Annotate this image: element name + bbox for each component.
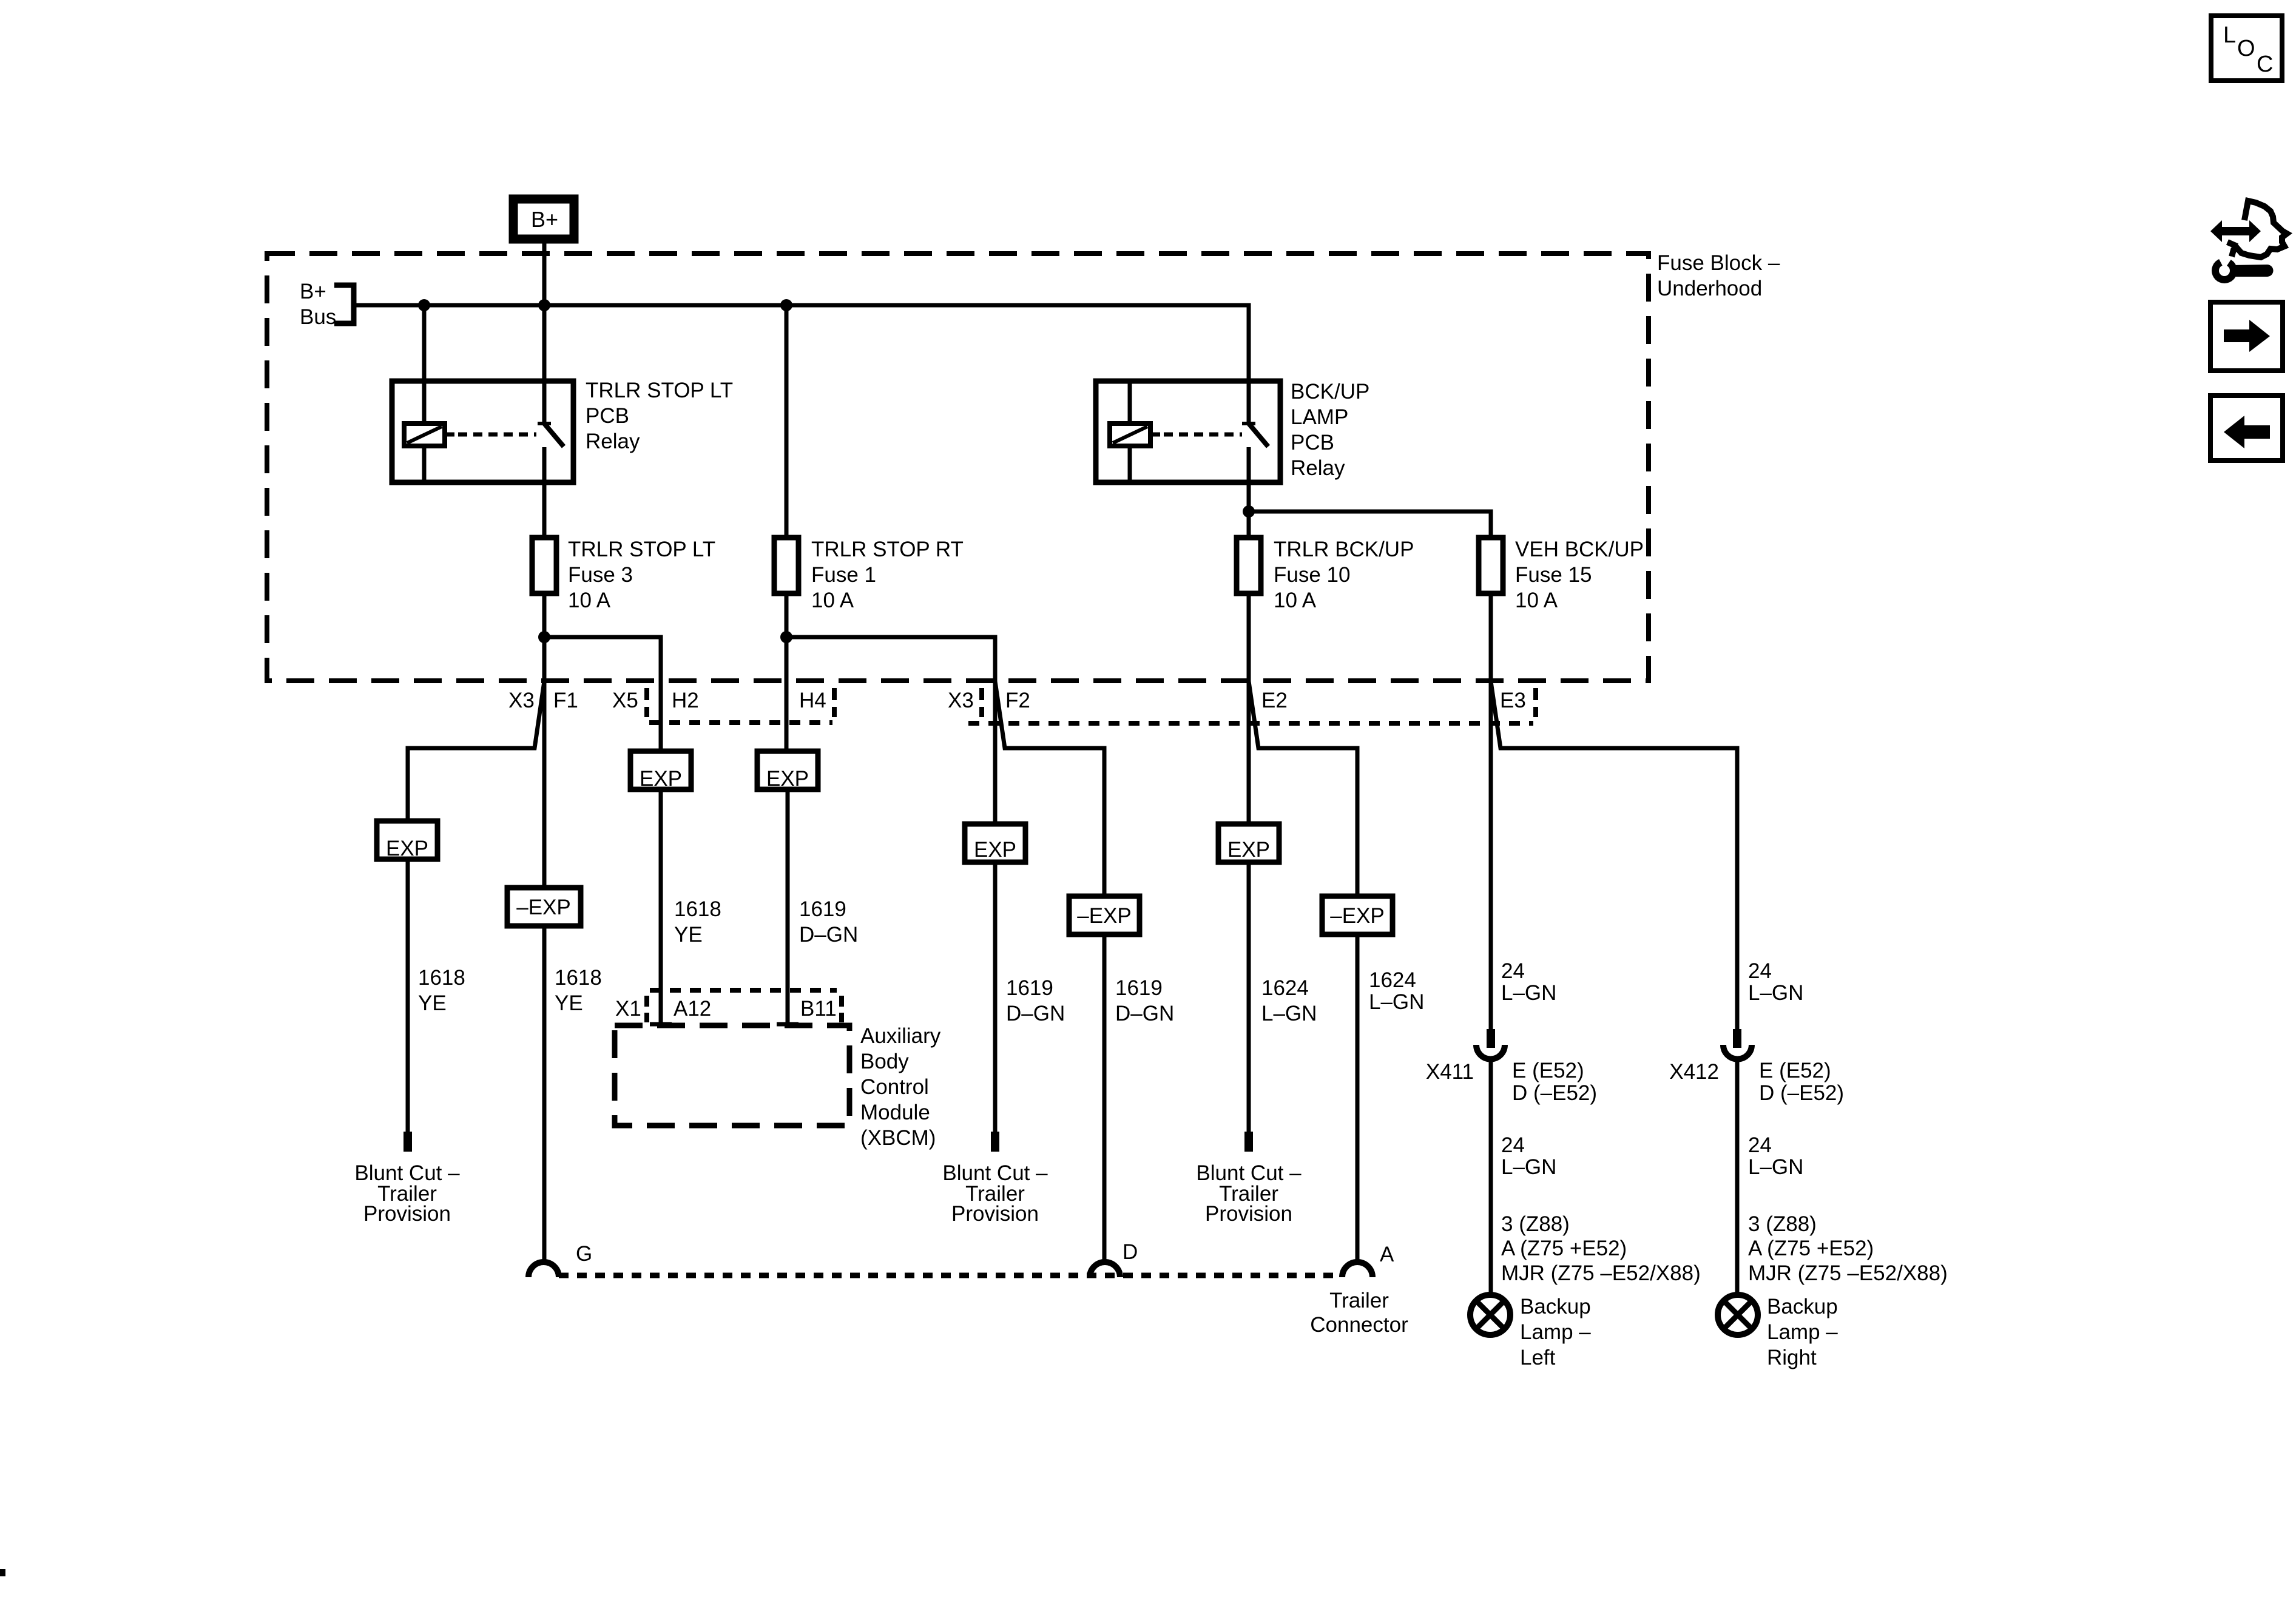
-EXP box F1 column [507, 888, 581, 926]
trailer connector label [1310, 1289, 1408, 1337]
EXP box H2 [630, 751, 691, 789]
node B+ bus bracket [334, 285, 354, 323]
svg-text:(XBCM): (XBCM) [860, 1126, 936, 1150]
svg-text:PCB: PCB [1291, 431, 1334, 454]
wire X411 to lamp [1489, 1059, 1493, 1295]
svg-text:TRLR STOP LT: TRLR STOP LT [586, 379, 733, 402]
svg-text:YE: YE [418, 991, 447, 1015]
svg-text:Provision: Provision [363, 1202, 451, 1226]
svg-text:L–GN: L–GN [1748, 1155, 1803, 1179]
wire E2 to blunt cut [1247, 862, 1251, 1132]
svg-text:F2: F2 [1005, 689, 1030, 712]
junction fuse3 out [538, 631, 550, 643]
relay K2 label [1291, 380, 1369, 480]
wire relay2 coil feed stub [1128, 382, 1132, 425]
svg-text:LAMP: LAMP [1291, 405, 1348, 429]
svg-text:EXP: EXP [1227, 838, 1270, 862]
BCM tick right [839, 996, 844, 1022]
svg-text:D–GN: D–GN [799, 923, 858, 947]
BCM tick X1 [644, 996, 649, 1022]
svg-text:L–GN: L–GN [1261, 1002, 1317, 1025]
blunt cut cap E2 [1244, 1132, 1253, 1152]
relay K2 coil [1110, 424, 1150, 446]
wire branch fuse3 to H2 [544, 637, 661, 751]
svg-text:G: G [576, 1242, 592, 1266]
-EXP box E2 right [1322, 896, 1393, 934]
relay K2 switch [1247, 381, 1251, 422]
svg-text:Bus: Bus [300, 305, 336, 329]
blunt cut cap F2 [991, 1132, 999, 1152]
connector dotted line X3-E3 [968, 721, 1533, 726]
svg-text:X5: X5 [612, 689, 638, 712]
svg-text:H4: H4 [799, 689, 826, 712]
trailer connector cup A [1342, 1262, 1373, 1277]
svg-text:Backup: Backup [1520, 1295, 1591, 1318]
wire H4 to BCM [786, 789, 790, 1025]
svg-text:EXP: EXP [974, 838, 1016, 862]
connector X411 cup [1476, 1045, 1505, 1059]
fuse F3 TRLR STOP LT [532, 538, 556, 593]
svg-text:L–GN: L–GN [1501, 981, 1556, 1005]
fuse F10 TRLR BCK/UP [1237, 538, 1261, 593]
svg-text:E (E52): E (E52) [1759, 1059, 1831, 1082]
pin B11 tick [777, 1022, 799, 1027]
svg-text:VEH BCK/UP: VEH BCK/UP [1515, 538, 1644, 561]
svg-text:Fuse 10: Fuse 10 [1274, 563, 1350, 587]
connector dotted line X5-H4 [649, 720, 832, 725]
wire F1 fork to left branch [408, 681, 544, 821]
svg-text:MJR (Z75 –E52/X88): MJR (Z75 –E52/X88) [1748, 1261, 1948, 1285]
BCM label [860, 1024, 941, 1150]
svg-text:–EXP: –EXP [1330, 904, 1385, 928]
wire relay1 to fuse3 [542, 482, 547, 538]
svg-text:E2: E2 [1261, 689, 1288, 712]
wire fuse10 out [1247, 593, 1251, 681]
wire E3 column [1489, 681, 1493, 1030]
svg-text:TRLR STOP RT: TRLR STOP RT [811, 538, 964, 561]
svg-text:E (E52): E (E52) [1512, 1059, 1584, 1082]
svg-text:1619: 1619 [799, 897, 846, 921]
-EXP box F2 right [1069, 896, 1140, 934]
svg-text:B+: B+ [531, 207, 558, 232]
relay K1 coil [404, 424, 445, 446]
svg-text:Fuse 1: Fuse 1 [811, 563, 876, 587]
relay K2 BCK/UP LAMP PCB Relay box [1096, 381, 1280, 482]
wire fuse15 out [1489, 593, 1493, 681]
svg-text:3 (Z88): 3 (Z88) [1501, 1212, 1570, 1236]
svg-text:Provision: Provision [1205, 1202, 1292, 1226]
wire H2 to BCM [659, 789, 663, 1025]
svg-text:24: 24 [1501, 959, 1525, 983]
wire H2 column [659, 749, 663, 754]
junction bus-relay1 coil [418, 299, 430, 311]
svg-text:10 A: 10 A [811, 589, 854, 612]
wire F2 column [993, 681, 998, 824]
svg-text:1624: 1624 [1261, 976, 1309, 1000]
svg-text:1618: 1618 [418, 966, 465, 990]
svg-text:B11: B11 [800, 997, 837, 1021]
connector tick X3F2 [979, 688, 984, 717]
svg-text:EXP: EXP [766, 767, 809, 791]
label 24 L-GN below X412 [1748, 1133, 1803, 1179]
svg-text:Relay: Relay [586, 430, 640, 453]
svg-text:X1: X1 [615, 997, 641, 1021]
junction relay2 out [1243, 505, 1255, 518]
EXP box H4 [757, 751, 818, 789]
blunt cut label left [354, 1161, 460, 1226]
trailer connector cup G [528, 1262, 559, 1277]
svg-text:Fuse 15: Fuse 15 [1515, 563, 1592, 587]
blunt cut label F2 [942, 1161, 1048, 1226]
wire coil to box bottom [422, 446, 427, 482]
svg-text:TRLR BCK/UP: TRLR BCK/UP [1274, 538, 1414, 561]
connector X412 pin cap [1733, 1029, 1741, 1048]
backup lamp left label [1520, 1295, 1591, 1369]
X411 pin labels [1512, 1059, 1597, 1105]
relay K2 actuator dashed link [1150, 433, 1160, 437]
svg-text:PCB: PCB [586, 404, 629, 428]
wire fuse1 feed from bus [785, 305, 789, 538]
backup lamp right label [1767, 1295, 1838, 1369]
wire F2 to blunt cut [993, 862, 998, 1132]
svg-text:1619: 1619 [1006, 976, 1053, 1000]
svg-text:X3: X3 [508, 689, 535, 712]
svg-text:3 (Z88): 3 (Z88) [1748, 1212, 1817, 1236]
svg-text:Right: Right [1767, 1346, 1817, 1369]
EXP box left branch [377, 821, 437, 859]
svg-text:Trailer: Trailer [1329, 1289, 1389, 1312]
label 24 L-GN E3 [1501, 959, 1556, 1005]
svg-text:Body: Body [860, 1050, 909, 1073]
svg-text:BCK/UP: BCK/UP [1291, 380, 1369, 403]
svg-text:F1: F1 [553, 689, 578, 712]
svg-text:L–GN: L–GN [1369, 990, 1424, 1014]
blunt cut label E2 [1196, 1161, 1302, 1226]
svg-text:1624: 1624 [1369, 968, 1416, 992]
svg-text:Provision: Provision [951, 1202, 1039, 1226]
svg-text:D–GN: D–GN [1006, 1002, 1065, 1025]
svg-text:1618: 1618 [555, 966, 602, 990]
X412 pin labels [1759, 1059, 1844, 1105]
svg-text:24: 24 [1748, 1133, 1772, 1157]
svg-text:O: O [2237, 36, 2255, 61]
label 1619 D-GN F2 [1006, 976, 1065, 1025]
svg-text:Left: Left [1520, 1346, 1556, 1369]
trailer connector dashed line [559, 1273, 1342, 1278]
svg-text:D–GN: D–GN [1115, 1002, 1174, 1025]
svg-text:24: 24 [1748, 959, 1772, 983]
svg-text:MJR (Z75 –E52/X88): MJR (Z75 –E52/X88) [1501, 1261, 1701, 1285]
svg-text:A: A [1380, 1243, 1394, 1266]
svg-text:Fuse Block –: Fuse Block – [1657, 251, 1780, 275]
wire fuse1 out [785, 593, 789, 681]
wire B+ lead [542, 243, 547, 381]
relay K1 actuator dashed link [445, 433, 454, 437]
svg-text:L–GN: L–GN [1501, 1155, 1556, 1179]
svg-text:L: L [2223, 22, 2236, 48]
svg-text:Lamp –: Lamp – [1520, 1320, 1591, 1344]
pin A12 tick [650, 1022, 672, 1027]
connector tick X5 [644, 688, 649, 717]
icon vehicle outline with double arrow and wrench [2227, 201, 2287, 257]
svg-text:24: 24 [1501, 1133, 1525, 1157]
label 1618 YE H2 [674, 897, 721, 947]
svg-text:A (Z75 +E52): A (Z75 +E52) [1501, 1237, 1627, 1260]
svg-text:1619: 1619 [1115, 976, 1163, 1000]
svg-text:A12: A12 [674, 997, 711, 1021]
svg-text:EXP: EXP [640, 767, 682, 791]
svg-text:Relay: Relay [1291, 456, 1345, 480]
relay K1 TRLR STOP LT PCB Relay box [392, 381, 573, 482]
BCM connector X1 dotted line [650, 988, 837, 993]
circuit labels right lamp [1748, 1212, 1948, 1285]
wire H4 column [785, 681, 789, 751]
junction bus-fuse1 [780, 299, 792, 311]
svg-text:1618: 1618 [674, 897, 721, 921]
svg-text:D (–E52): D (–E52) [1512, 1081, 1597, 1105]
label 1618 YE F1 [555, 966, 602, 1015]
icon arrow next box [2210, 302, 2283, 371]
wire E2 fork to right branch [1249, 681, 1357, 896]
svg-text:Connector: Connector [1310, 1313, 1408, 1337]
fuse F1 TRLR STOP RT [774, 538, 799, 593]
svg-text:10 A: 10 A [1274, 589, 1317, 612]
svg-text:H2: H2 [672, 689, 699, 712]
svg-text:C: C [2257, 52, 2273, 77]
svg-text:–EXP: –EXP [1077, 904, 1132, 928]
relay K1 switch [542, 381, 547, 422]
connector X412 cup [1723, 1045, 1752, 1059]
svg-text:–EXP: –EXP [516, 896, 571, 919]
svg-text:Underhood: Underhood [1657, 277, 1762, 300]
wire branch to fuse15 [1249, 511, 1491, 538]
BCM pin labels [615, 997, 837, 1021]
EXP box F2 [965, 824, 1025, 862]
label 1624 L-GN E2 [1261, 976, 1317, 1025]
wire coil to box bottom [1128, 446, 1132, 482]
svg-text:Control: Control [860, 1075, 929, 1099]
relay K1 label [586, 379, 733, 453]
wire branch fuse1 to F2 [786, 637, 995, 681]
EXP box E2 [1218, 824, 1279, 862]
label 1624 L-GN E2 right [1369, 968, 1424, 1014]
svg-text:Auxiliary: Auxiliary [860, 1024, 941, 1048]
trailer connector cup D [1090, 1262, 1120, 1277]
svg-text:EXP: EXP [386, 837, 428, 860]
blunt cut cap left [403, 1132, 412, 1152]
fuse block label [1657, 251, 1780, 300]
lamp backup right [1718, 1295, 1758, 1335]
svg-text:X412: X412 [1669, 1060, 1719, 1084]
page mark bottom left [0, 1569, 5, 1576]
wire E3 fork to right branch [1491, 681, 1737, 1030]
svg-text:Lamp –: Lamp – [1767, 1320, 1838, 1344]
svg-text:10 A: 10 A [568, 589, 611, 612]
wire relay2 to junction [1247, 482, 1251, 538]
circuit labels left lamp [1501, 1212, 1701, 1285]
wire left branch to blunt cut [406, 859, 410, 1132]
svg-text:YE: YE [555, 991, 583, 1015]
fuse F15 VEH BCK/UP [1479, 538, 1503, 593]
fuse block underhood dashed boundary [267, 254, 1649, 681]
svg-text:10 A: 10 A [1515, 589, 1558, 612]
label 1618 YE left [418, 966, 465, 1015]
connector X411 pin cap [1487, 1029, 1495, 1048]
wire E2 column [1247, 681, 1251, 824]
label 24 L-GN below X411 [1501, 1133, 1556, 1179]
BCM XBCM dashed box [615, 1025, 849, 1126]
junction fuse1 out [780, 631, 792, 643]
wire X412 to lamp [1735, 1059, 1740, 1295]
svg-text:X411: X411 [1426, 1060, 1474, 1084]
connector tick H4 [832, 688, 837, 717]
svg-text:Fuse 3: Fuse 3 [568, 563, 633, 587]
icon arrow back box [2210, 396, 2283, 461]
svg-text:B+: B+ [300, 280, 326, 303]
svg-text:Backup: Backup [1767, 1295, 1838, 1318]
wire E2 right to trailer A [1356, 934, 1360, 1263]
svg-text:D (–E52): D (–E52) [1759, 1081, 1844, 1105]
junction bus-B+ lead [538, 299, 550, 311]
connector row labels [508, 689, 1526, 712]
wire relay1 coil feed [422, 305, 427, 425]
svg-text:D: D [1123, 1240, 1138, 1264]
wire F1 column [542, 681, 547, 888]
svg-text:L–GN: L–GN [1748, 981, 1803, 1005]
svg-text:A (Z75 +E52): A (Z75 +E52) [1748, 1237, 1874, 1260]
svg-text:YE: YE [674, 923, 703, 947]
lamp backup left [1470, 1295, 1510, 1335]
svg-text:Module: Module [860, 1101, 930, 1124]
wire F1 to trailer G [542, 926, 547, 1263]
B+ power symbol [513, 199, 574, 239]
wire F2 right to trailer D [1102, 934, 1107, 1263]
svg-text:E3: E3 [1500, 689, 1526, 712]
B+ Bus label [300, 280, 336, 329]
icon LOC box [2211, 16, 2282, 81]
label 24 L-GN right [1748, 959, 1803, 1005]
svg-text:X3: X3 [948, 689, 974, 712]
svg-text:TRLR STOP LT: TRLR STOP LT [568, 538, 715, 561]
connector tick E3 [1533, 688, 1538, 717]
label 1619 D-GN F2 right [1115, 976, 1174, 1025]
wire B+ bus [354, 305, 1249, 381]
wire fuse3 out [542, 593, 547, 681]
wire F2 fork to right branch [995, 681, 1104, 896]
label 1619 D-GN H4 [799, 897, 858, 947]
